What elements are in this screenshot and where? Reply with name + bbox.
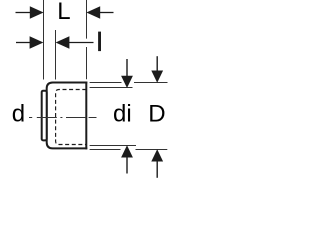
flange (closed-end rim): [42, 91, 47, 141]
D top extension line: [90, 82, 122, 84]
D up arrow: [151, 149, 163, 178]
svg-text:D: D: [148, 101, 165, 128]
extension line B upper (x=86.5): [86, 0, 88, 39]
dimension L right arrow: [86, 6, 113, 18]
di bottom extension line: [90, 145, 136, 147]
dimension l right arrow: [56, 36, 94, 48]
extension line A (left, x=43.5): [43, 0, 45, 80]
inner cavity hidden dashed outline: [56, 90, 87, 145]
label l (drawn as bar): [98, 32, 101, 51]
dimension l left arrow: [16, 36, 43, 48]
extension line B lower: [86, 47, 88, 79]
center line (dash-dot): [29, 117, 97, 119]
svg-text:d: d: [12, 101, 25, 128]
cap right edge: [85, 82, 87, 150]
di up arrow: [121, 145, 133, 173]
dimension L left arrow: [16, 6, 44, 18]
D bottom extension line: [90, 149, 121, 151]
di top extension line: [90, 87, 133, 89]
cap body white fill: [46, 82, 88, 150]
svg-text:di: di: [113, 101, 132, 128]
D down arrow: [151, 56, 163, 83]
extension line C (x=55.5): [55, 30, 57, 80]
svg-text:L: L: [57, 0, 70, 25]
cap body outline: [47, 83, 88, 149]
di down arrow: [121, 59, 133, 88]
